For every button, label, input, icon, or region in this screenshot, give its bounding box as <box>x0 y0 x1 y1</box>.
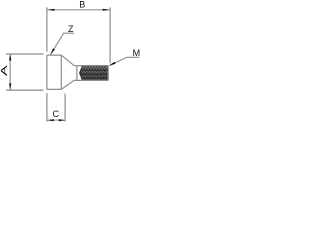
extension line B right <box>109 7 111 63</box>
extension line A bottom <box>6 89 43 91</box>
dimension C line <box>47 119 65 121</box>
svg-text:B: B <box>79 0 85 10</box>
svg-text:M: M <box>133 48 141 58</box>
dimension A line <box>9 54 11 89</box>
thread band <box>79 66 108 80</box>
dimension B line <box>47 9 109 11</box>
dimension C right arrow <box>59 119 65 121</box>
svg-text:Z: Z <box>68 24 74 34</box>
extension line B left <box>46 7 48 52</box>
extension line A top <box>6 53 43 55</box>
dimension A bottom arrow <box>9 83 11 89</box>
svg-text:A: A <box>0 65 9 76</box>
svg-text:C: C <box>53 109 60 119</box>
extension line C right <box>64 94 66 122</box>
leader M arrowhead <box>109 62 116 66</box>
head cylinder outline <box>47 55 61 89</box>
dimension B left arrow <box>48 9 54 11</box>
leader M line <box>109 57 139 65</box>
cone chamfer transition <box>61 55 74 89</box>
leader Z line <box>51 33 74 54</box>
dimension B right arrow <box>103 9 110 11</box>
threaded shank outline <box>74 66 108 81</box>
extension line C left <box>46 93 48 122</box>
leader Z arrowhead <box>50 48 55 55</box>
dimension C left arrow <box>48 119 54 121</box>
dimension A top arrow <box>9 54 11 61</box>
thread start junction line <box>76 66 78 81</box>
